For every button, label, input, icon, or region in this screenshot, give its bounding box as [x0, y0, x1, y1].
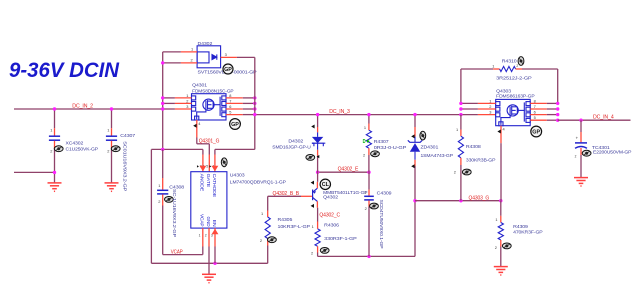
- svg-text:U4303: U4303: [230, 172, 245, 177]
- svg-text:Q4302_C: Q4302_C: [319, 212, 340, 218]
- svg-text:1: 1: [199, 234, 201, 238]
- ground U4303: [202, 274, 216, 282]
- svg-text:2: 2: [311, 251, 313, 256]
- GP marker Q4303: [531, 126, 542, 137]
- wire D4302 pin2: [163, 62, 181, 64]
- svg-text:C4309: C4309: [377, 190, 392, 195]
- svg-text:1: 1: [191, 47, 193, 52]
- junction dots Q4301 left: [161, 96, 164, 99]
- svg-text:SMD16JGP-GP-U: SMD16JGP-GP-U: [272, 145, 311, 150]
- svg-text:2: 2: [107, 149, 109, 154]
- junction dot cap1-rail: [53, 107, 56, 110]
- svg-text:330R3F-1-GP: 330R3F-1-GP: [324, 236, 356, 241]
- junction dot anode line: [161, 148, 164, 151]
- svg-text:+: +: [576, 135, 579, 140]
- wire D4302 pin3: [221, 56, 237, 58]
- wire EN line: [151, 262, 267, 264]
- svg-text:C4307: C4307: [120, 133, 135, 138]
- svg-text:6: 6: [229, 104, 231, 109]
- svg-text:1: 1: [456, 127, 458, 132]
- svg-text:R4306: R4306: [324, 222, 339, 227]
- svg-text:VCAP: VCAP: [171, 249, 183, 255]
- svg-text:1: 1: [261, 211, 263, 216]
- junction dot D4302 pin2: [161, 61, 164, 64]
- resistor R4308: [460, 115, 462, 130]
- junction dots Q4303 left: [459, 102, 462, 105]
- wire DC_IN_4 rail: [558, 119, 631, 121]
- svg-text:4: 4: [503, 126, 506, 131]
- svg-text:1: 1: [364, 125, 366, 130]
- wire ANODE segment: [151, 148, 203, 150]
- svg-text:Q4301_G: Q4301_G: [199, 139, 220, 145]
- zener ZD4301: [414, 115, 416, 127]
- resistor R4305: [267, 196, 269, 210]
- diode D4302 schottky (to Q4302_E): [317, 115, 319, 127]
- svg-text:GATE: GATE: [206, 174, 211, 188]
- junction dots Q4301 right: [253, 96, 256, 99]
- svg-text:330KR3B-GP: 330KR3B-GP: [466, 157, 496, 162]
- svg-text:D4302: D4302: [288, 138, 303, 143]
- svg-text:Q4302_B_B: Q4302_B_B: [273, 191, 300, 197]
- wire ground stub left: [14, 171, 55, 173]
- svg-text:Q4303: Q4303: [496, 88, 511, 93]
- svg-text:2: 2: [575, 155, 577, 159]
- svg-text:2: 2: [186, 98, 188, 103]
- svg-text:1: 1: [50, 127, 52, 132]
- svg-text:1: 1: [489, 98, 491, 103]
- pin arrows U4303 anode/cathode: [200, 166, 207, 172]
- svg-text:2: 2: [516, 64, 518, 68]
- svg-text:D: D: [363, 139, 366, 145]
- capacitor C4308: [162, 149, 164, 178]
- svg-text:5: 5: [534, 115, 536, 120]
- svg-text:GP: GP: [532, 129, 540, 135]
- svg-text:R4310: R4310: [502, 59, 517, 64]
- svg-text:C1U250VK-GP: C1U250VK-GP: [66, 146, 98, 151]
- svg-text:GP: GP: [224, 67, 232, 73]
- svg-text:ZD4301: ZD4301: [421, 145, 439, 150]
- svg-text:CL: CL: [322, 182, 330, 188]
- wire VCAP: [202, 247, 204, 255]
- pin4 wire Q4303 gate: [500, 126, 502, 144]
- svg-text:10KR3F-L-GP: 10KR3F-L-GP: [278, 224, 310, 229]
- ground R4309: [494, 267, 508, 275]
- svg-text:3: 3: [225, 52, 227, 57]
- svg-text:2: 2: [191, 58, 193, 63]
- svg-text:7: 7: [229, 98, 231, 103]
- svg-text:1SMA4743-GP: 1SMA4743-GP: [421, 153, 453, 158]
- pin 4 wire / gate of Q4301: [196, 120, 198, 138]
- svg-text:R4309: R4309: [513, 224, 528, 229]
- op-amp U4303 (LM74700 ideal diode ctrl): [191, 172, 227, 228]
- junction dots Q4303 right: [556, 102, 559, 105]
- junction dots DC_IN_3: [253, 113, 256, 116]
- svg-text:FDMS8D8N15C-GP: FDMS8D8N15C-GP: [192, 89, 233, 94]
- svg-text:8: 8: [534, 98, 536, 103]
- svg-text:1: 1: [365, 191, 367, 195]
- svg-text:FDMS86163P-GP: FDMS86163P-GP: [496, 94, 534, 99]
- capacitor C4307: [111, 109, 113, 128]
- wire EN pin: [214, 247, 216, 264]
- svg-text:4: 4: [198, 121, 201, 126]
- ground for XC4302: [48, 183, 62, 191]
- svg-text:3R2512J-2-GP: 3R2512J-2-GP: [496, 76, 531, 81]
- wire Q4302_B_B: [268, 195, 301, 197]
- svg-text:SC01U16V9X3.2-GP: SC01U16V9X3.2-GP: [123, 141, 128, 191]
- wire GND pin: [208, 247, 210, 275]
- ground for C4307: [105, 183, 119, 191]
- svg-text:LM74700QDBVRQ1-1-GP: LM74700QDBVRQ1-1-GP: [230, 180, 286, 185]
- wire right vertical to D4302 pin3: [254, 57, 256, 149]
- svg-text:2: 2: [260, 238, 262, 243]
- wire DC_IN_2 rail: [14, 108, 163, 110]
- svg-text:Q4302_E: Q4302_E: [338, 166, 359, 172]
- eye marker U4303: [221, 158, 227, 167]
- wire CATHODE segment: [215, 148, 255, 150]
- svg-text:Q4301: Q4301: [192, 82, 207, 87]
- capacitor C4309: [368, 172, 370, 189]
- wire left vertical D4302/Q4301: [162, 52, 164, 149]
- svg-text:2: 2: [495, 245, 497, 250]
- resistor R4310 (bypass): [460, 69, 462, 103]
- svg-text:Q4303_G: Q4303_G: [469, 195, 490, 201]
- pins U4303 bottom: [202, 228, 204, 246]
- svg-text:3: 3: [489, 110, 491, 115]
- svg-text:R4305: R4305: [278, 217, 293, 222]
- junction dot gnd stub: [53, 171, 56, 174]
- wire Q4303_G line: [415, 200, 501, 202]
- svg-text:0R3J-0-U-GP: 0R3J-0-U-GP: [374, 145, 406, 150]
- resistor R4306: [317, 208, 319, 222]
- svg-text:EN: EN: [212, 220, 217, 227]
- resistor R4307: [368, 115, 370, 124]
- wire DC_IN_3 rail: [255, 114, 478, 116]
- svg-text:DC_IN_3: DC_IN_3: [329, 109, 350, 115]
- capacitor TC4301 (polarized): [580, 120, 582, 132]
- junction dot cap2-rail: [110, 107, 113, 110]
- svg-text:2: 2: [454, 170, 456, 175]
- svg-text:1: 1: [107, 127, 109, 132]
- arrow marker Q4301 pin4: [193, 124, 196, 128]
- svg-text:R4308: R4308: [466, 144, 481, 149]
- svg-text:9-36V DCIN: 9-36V DCIN: [9, 59, 120, 82]
- capacitor XC4302: [54, 109, 56, 128]
- svg-text:5: 5: [206, 165, 208, 169]
- svg-text:ANODE: ANODE: [200, 174, 205, 192]
- wire D4302 pin1: [163, 51, 181, 53]
- svg-text:1: 1: [186, 93, 188, 98]
- wires Q4303 left pins: [461, 102, 478, 104]
- svg-text:5: 5: [229, 109, 231, 114]
- wires Q4303 right pins: [530, 102, 547, 104]
- CL marker Q4302: [320, 179, 330, 189]
- svg-text:DC_IN_2: DC_IN_2: [72, 103, 93, 109]
- GP marker Q4301: [230, 119, 241, 130]
- svg-text:470KR3F-GP: 470KR3F-GP: [513, 230, 543, 235]
- svg-text:GND: GND: [206, 217, 211, 227]
- svg-text:8: 8: [229, 93, 231, 98]
- svg-text:2: 2: [365, 206, 367, 211]
- svg-text:3: 3: [186, 104, 188, 109]
- resistor R4309: [500, 201, 502, 216]
- svg-text:1: 1: [312, 224, 314, 229]
- svg-text:GP: GP: [231, 122, 239, 128]
- svg-text:2: 2: [489, 104, 491, 109]
- svg-text:Q4302: Q4302: [323, 195, 338, 200]
- wires Q4301 right pins: [226, 97, 243, 99]
- wire DC_IN_2 branch down: [150, 149, 152, 263]
- svg-text:XC4302: XC4302: [66, 140, 84, 145]
- wire bottom rail (Q4303_G net): [318, 255, 415, 257]
- ground TC4301: [574, 178, 588, 186]
- svg-text:2: 2: [50, 149, 52, 154]
- svg-text:DC_IN_4: DC_IN_4: [593, 114, 614, 120]
- svg-text:1: 1: [158, 183, 160, 188]
- svg-text:E2200U50VM-GP: E2200U50VM-GP: [593, 150, 631, 155]
- svg-text:R4307: R4307: [374, 139, 389, 144]
- GP marker D4302: [223, 64, 233, 74]
- svg-text:CATHODE: CATHODE: [212, 174, 217, 198]
- svg-text:6: 6: [534, 110, 536, 115]
- svg-text:2: 2: [158, 199, 160, 204]
- wires Q4301 left pins: [163, 97, 175, 99]
- svg-text:2: 2: [363, 153, 365, 158]
- junction dot zener/Q4303_G: [413, 199, 416, 202]
- junction dot EN pin: [213, 262, 216, 265]
- svg-text:1: 1: [495, 217, 497, 222]
- svg-text:2: 2: [205, 234, 207, 238]
- svg-text:1: 1: [492, 63, 494, 68]
- svg-text:VCAP: VCAP: [200, 214, 205, 227]
- svg-text:SC-1U16V9X3.2-GP: SC-1U16V9X3.2-GP: [172, 189, 177, 237]
- svg-text:7: 7: [534, 104, 536, 109]
- wire Q4302_E line: [318, 171, 369, 173]
- transistor Q4302 (PNP MMBT5401): [313, 188, 318, 201]
- svg-text:SCD4TU50V9X0.1-GP: SCD4TU50V9X0.1-GP: [379, 200, 384, 249]
